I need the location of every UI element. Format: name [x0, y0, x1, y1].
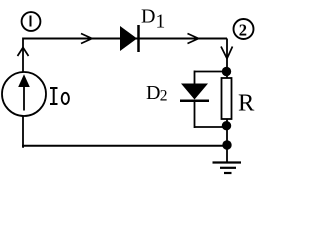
wire D2 branch top vertical	[194, 71, 196, 86]
wire bottom horizontal	[22, 145, 227, 147]
ground bar 1	[213, 161, 242, 163]
wire top horizontal from node 1 corner to right corner	[23, 38, 227, 40]
svg-text:2: 2	[160, 88, 168, 105]
wire D2 branch bottom horizontal	[195, 126, 228, 128]
node 2 circle	[234, 19, 254, 39]
junction dot bottom (source return / ground)	[222, 140, 231, 149]
node 1 digit	[30, 16, 32, 27]
resistor R body	[222, 78, 232, 119]
junction dot top (node 2 / D2 / R)	[222, 67, 231, 76]
ground bar 2	[220, 167, 236, 169]
wire left vertical upper (node 1 to current source top)	[22, 38, 24, 73]
diode D1 cathode bar	[137, 25, 140, 52]
node 1 circle	[22, 12, 41, 31]
current source arrow head	[18, 74, 30, 87]
label Io : letter o drawn as ellipse	[62, 93, 69, 104]
svg-text:D: D	[141, 6, 155, 28]
current arrow on top wire right of D1	[188, 34, 199, 44]
current arrow pointing down on right vertical wire	[221, 47, 233, 59]
current source circle	[2, 72, 46, 116]
wire right vertical (node 2 down through junction to resistor top)	[226, 39, 228, 80]
diode D1 triangle	[120, 26, 137, 51]
current source arrow shaft	[23, 84, 25, 111]
svg-text:R: R	[238, 89, 255, 116]
svg-text:2: 2	[239, 20, 247, 39]
diode D2 cathode bar	[180, 100, 209, 103]
wire right vertical (resistor bottom through junctions to ground)	[226, 118, 228, 162]
junction dot middle (D2 / R bottom)	[222, 121, 231, 130]
ground bar 3	[224, 172, 232, 174]
label Io : letter I drawn as strokes	[50, 88, 58, 104]
svg-text:1: 1	[156, 12, 166, 33]
svg-text:D: D	[146, 82, 160, 104]
diode D2 triangle	[181, 84, 208, 100]
current arrow on top wire left of D1	[81, 34, 92, 44]
wire D2 branch top horizontal	[195, 71, 228, 73]
current arrow pointing up on left vertical wire	[18, 48, 29, 57]
wire D2 branch bottom vertical	[194, 100, 196, 128]
wire left vertical lower (current source bottom to bottom corner)	[23, 116, 24, 147]
